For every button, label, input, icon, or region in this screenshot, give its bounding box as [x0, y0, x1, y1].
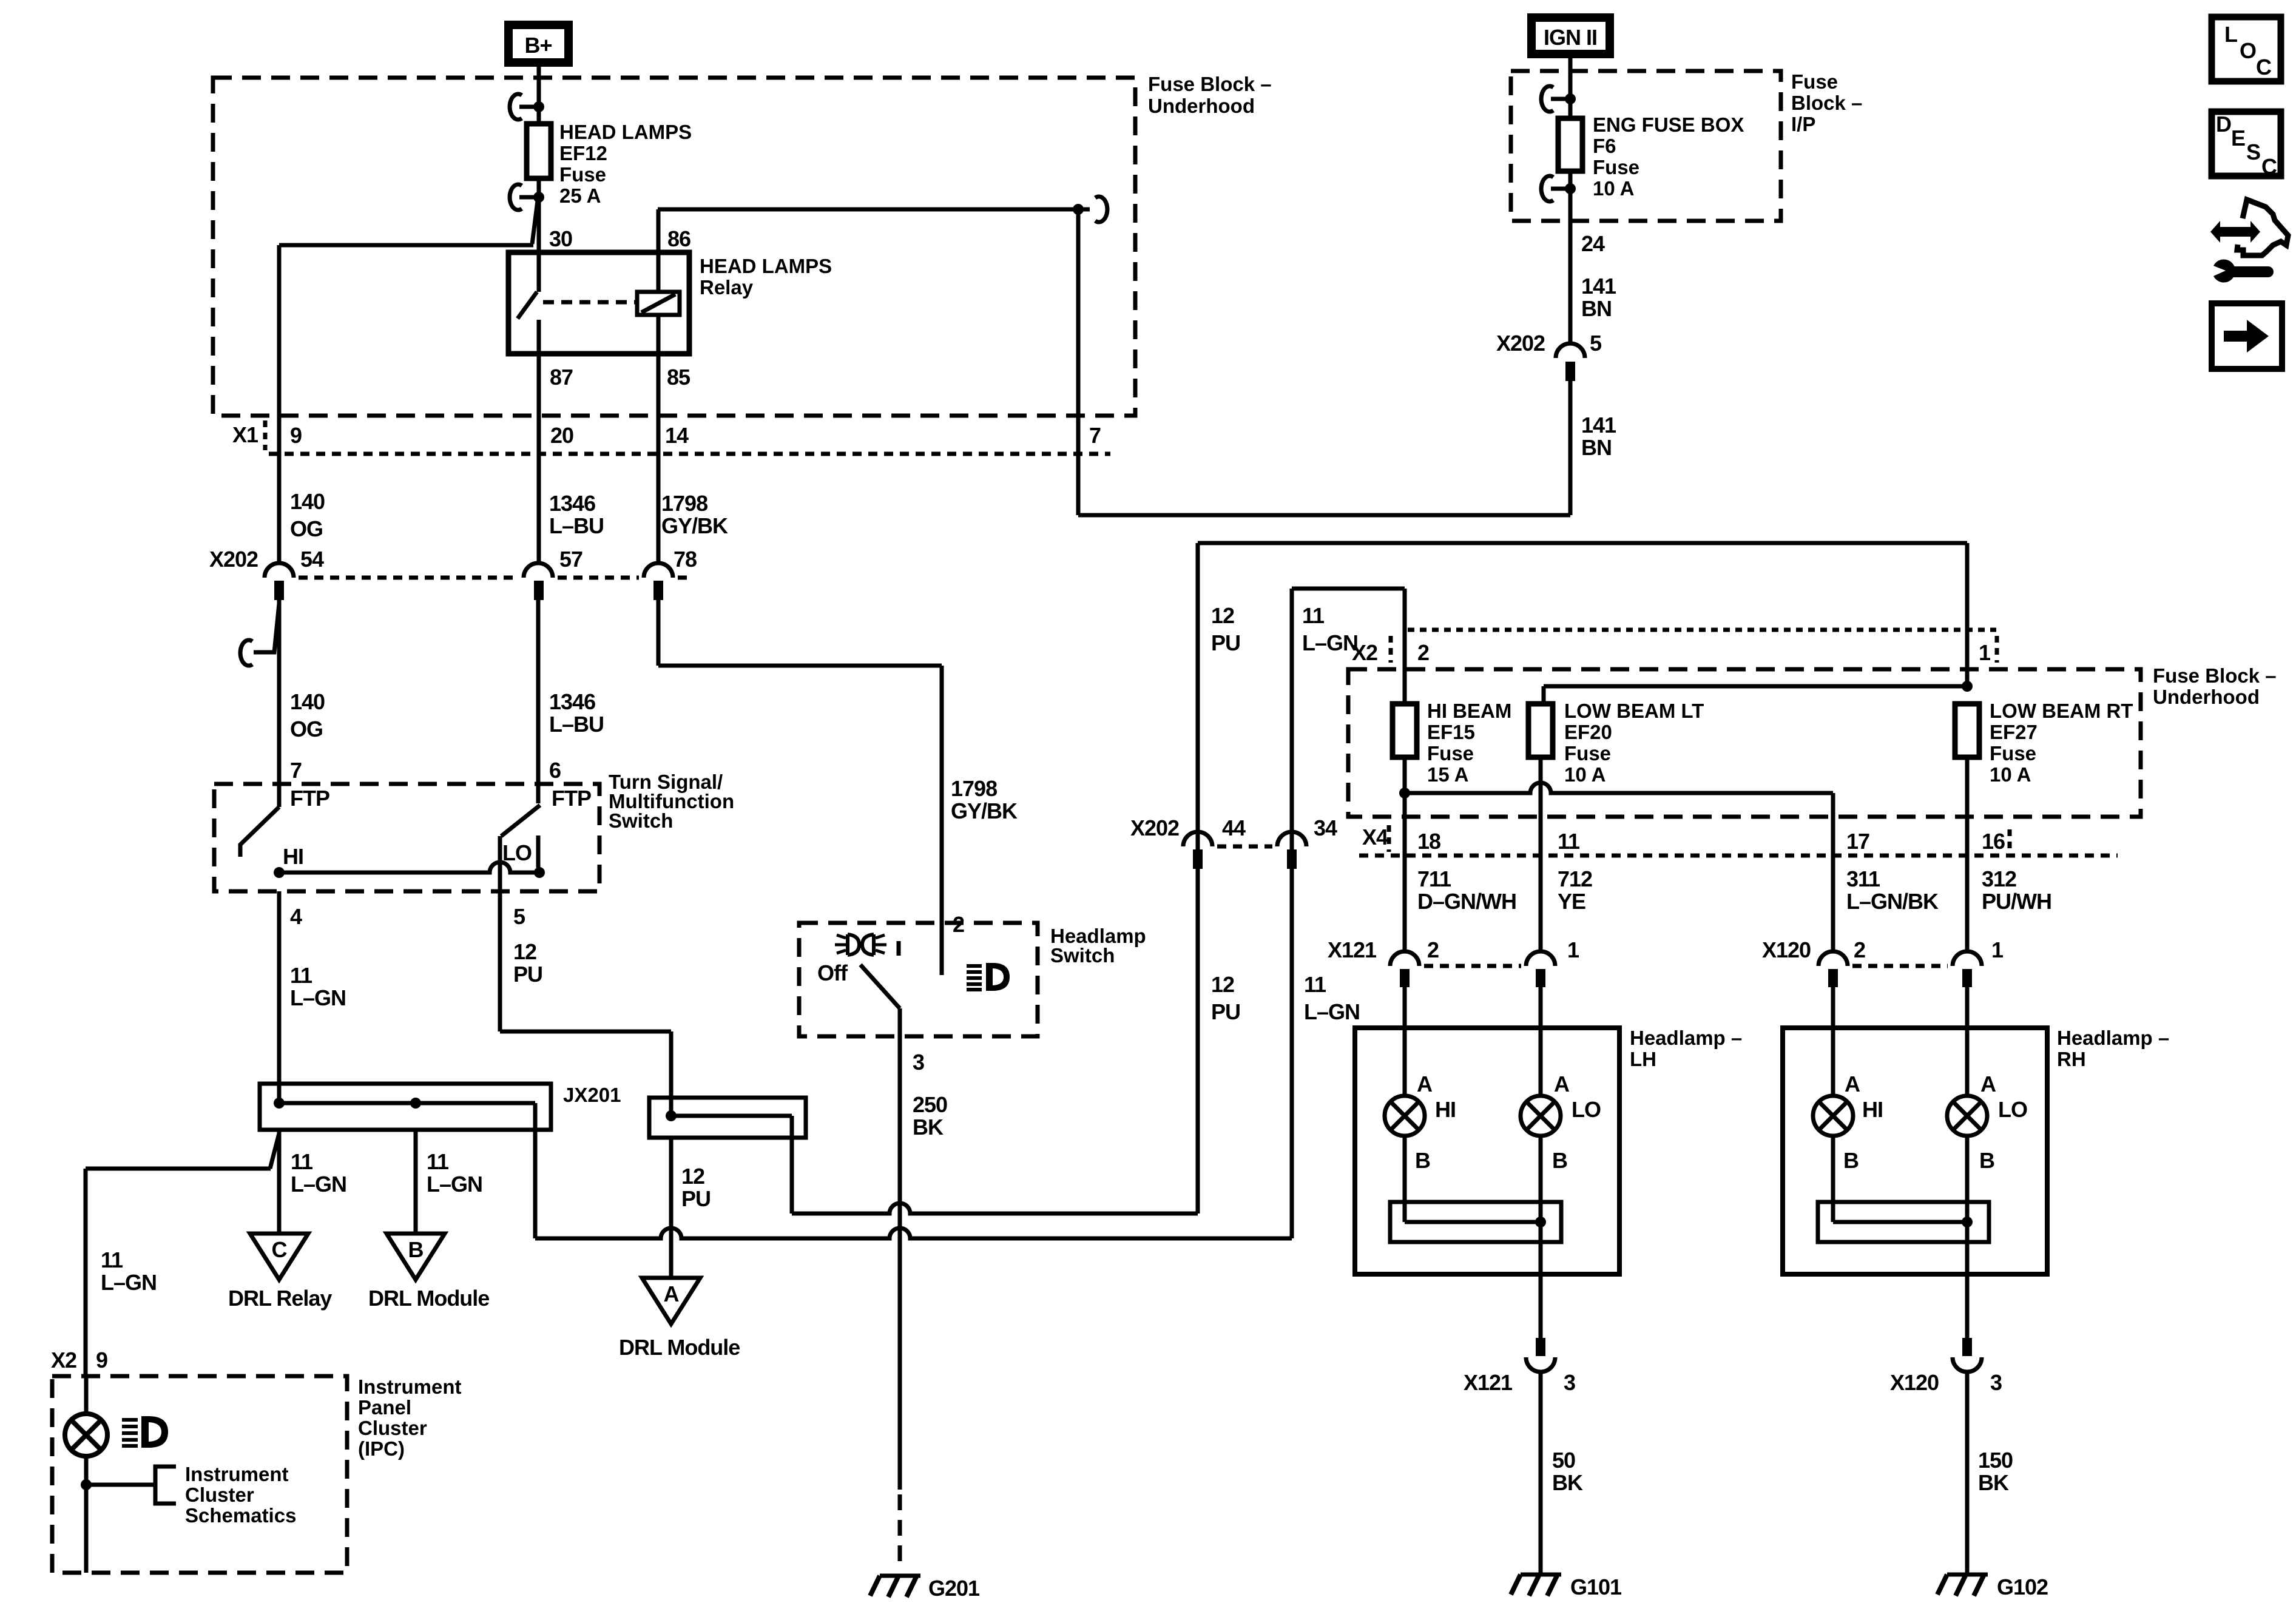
wires into headlamp LH — [1405, 987, 1541, 1096]
splice link to 12 PU main — [792, 869, 1198, 1214]
svg-text:141: 141 — [1581, 274, 1616, 299]
svg-text:EF27: EF27 — [1990, 721, 2038, 743]
svg-text:B: B — [1415, 1148, 1430, 1173]
svg-text:DRL Relay: DRL Relay — [228, 1286, 332, 1311]
svg-text:3: 3 — [913, 1050, 924, 1075]
wire fuse EF12 to relay pin 30 — [537, 178, 541, 252]
svg-text:GY/BK: GY/BK — [951, 798, 1018, 823]
DRL Relay triangle C — [228, 1234, 332, 1311]
svg-text:50: 50 — [1552, 1448, 1575, 1473]
svg-text:L–GN: L–GN — [1304, 999, 1360, 1024]
svg-text:DRL Module: DRL Module — [619, 1335, 740, 1360]
svg-text:L–GN/BK: L–GN/BK — [1846, 889, 1939, 914]
upper wire labels 12 PU / 11 L-GN — [1211, 603, 1358, 655]
svg-text:L–GN: L–GN — [427, 1172, 482, 1197]
svg-text:Off: Off — [817, 960, 848, 985]
svg-text:FTP: FTP — [290, 786, 329, 811]
wire 141 BN lower — [1078, 381, 1570, 515]
svg-text:LO: LO — [1998, 1097, 2027, 1122]
DRL Module triangle B — [368, 1234, 489, 1311]
headlamp switch blade — [860, 965, 900, 1036]
Headlamp RH box — [1783, 1027, 2169, 1274]
svg-text:Headlamp –: Headlamp – — [2057, 1027, 2169, 1049]
svg-text:Instrument: Instrument — [185, 1463, 289, 1485]
svg-text:GY/BK: GY/BK — [661, 513, 728, 538]
svg-text:C: C — [2261, 154, 2277, 179]
wire 150 BK — [1965, 1372, 1970, 1573]
wire 50 BK — [1539, 1372, 1543, 1573]
connector X2 pin 9 labels — [51, 1348, 107, 1372]
fuse holder clip bottom — [510, 184, 544, 210]
wire 12 PU top run — [1198, 543, 1967, 869]
svg-text:Fuse: Fuse — [1593, 156, 1639, 178]
RH splice bar — [1818, 1202, 1989, 1242]
svg-text:OG: OG — [290, 516, 323, 541]
svg-text:Switch: Switch — [609, 809, 673, 832]
Instrument Panel Cluster box — [52, 1376, 462, 1573]
JX201 link wire to 11 L-GN main — [535, 869, 1292, 1238]
LH bulb wires to splice — [1405, 1136, 1541, 1274]
Fuse Block - Underhood right box — [1348, 669, 2141, 817]
svg-text:140: 140 — [290, 489, 325, 514]
svg-text:1346: 1346 — [549, 689, 595, 714]
svg-text:PU: PU — [681, 1186, 711, 1211]
svg-text:312: 312 — [1982, 866, 2016, 891]
wire 11 L-GN from HI to JX201 — [277, 891, 282, 1084]
svg-text:5: 5 — [1590, 331, 1602, 356]
fuse holder clip top — [510, 94, 544, 120]
svg-text:EF12: EF12 — [559, 142, 607, 164]
wire 141 BN — [1568, 171, 1573, 343]
svg-text:BN: BN — [1581, 296, 1612, 321]
svg-text:B: B — [1843, 1148, 1859, 1173]
icon DESC — [2212, 112, 2281, 179]
fuse HI BEAM EF15 — [1393, 700, 1511, 786]
off contact tick — [897, 941, 901, 956]
svg-text:11: 11 — [101, 1247, 123, 1272]
svg-text:HEAD LAMPS: HEAD LAMPS — [700, 255, 832, 277]
svg-text:L–GN: L–GN — [101, 1270, 157, 1295]
switch common wire with hop — [279, 862, 539, 873]
svg-text:Fuse: Fuse — [1427, 742, 1474, 765]
svg-text:EF20: EF20 — [1564, 721, 1612, 743]
wire coil feed down to IGN circuit — [1076, 209, 1081, 515]
svg-text:2: 2 — [953, 912, 964, 937]
svg-text:A: A — [1845, 1072, 1860, 1096]
svg-text:L: L — [2224, 22, 2237, 47]
wire B+ to fuse EF12 — [537, 67, 541, 124]
connector X120 row — [1762, 937, 2004, 987]
svg-text:11: 11 — [291, 1149, 313, 1174]
svg-text:FTP: FTP — [552, 786, 591, 811]
LH HI bulb — [1385, 1072, 1456, 1173]
LH LO bulb — [1521, 1072, 1601, 1173]
svg-text:2: 2 — [1427, 937, 1439, 962]
svg-text:2: 2 — [1417, 640, 1429, 665]
svg-text:I/P: I/P — [1791, 113, 1815, 135]
svg-text:S: S — [2246, 140, 2260, 164]
svg-text:11: 11 — [1304, 972, 1326, 997]
svg-text:PU: PU — [1211, 630, 1240, 655]
IGN II power symbol — [1531, 18, 1610, 54]
connector X1 row — [232, 420, 1110, 454]
connector X121 pin 3 — [1464, 1338, 1575, 1395]
svg-text:PU/WH: PU/WH — [1982, 889, 2051, 914]
svg-text:C: C — [272, 1237, 288, 1262]
svg-text:X120: X120 — [1762, 937, 1811, 962]
fuse holder clip top — [1541, 86, 1576, 112]
ground G201 — [870, 1576, 980, 1601]
svg-text:L–GN: L–GN — [291, 1172, 346, 1197]
svg-text:RH: RH — [2057, 1048, 2086, 1070]
svg-text:X121: X121 — [1464, 1370, 1513, 1395]
wire to X121 pin 3 — [1539, 1274, 1543, 1338]
wire 1798 GY/BK to headlamp switch — [658, 600, 942, 975]
svg-text:3: 3 — [1990, 1370, 2002, 1395]
svg-text:LOW BEAM RT: LOW BEAM RT — [1990, 700, 2133, 722]
svg-text:78: 78 — [674, 547, 697, 572]
svg-text:X202: X202 — [209, 547, 258, 572]
svg-text:Underhood: Underhood — [2153, 686, 2260, 708]
DRL Module triangle A — [619, 1278, 740, 1360]
wire 140 OG lower with inline clip — [240, 600, 279, 807]
svg-text:Switch: Switch — [1050, 944, 1115, 967]
svg-text:9: 9 — [96, 1348, 107, 1372]
svg-text:Instrument: Instrument — [358, 1376, 462, 1398]
ground G102 — [1937, 1575, 2048, 1599]
svg-text:G102: G102 — [1997, 1575, 2048, 1599]
connector X202 row 44/34 — [1130, 815, 1337, 869]
svg-text:150: 150 — [1978, 1448, 2013, 1473]
svg-text:34: 34 — [1314, 815, 1337, 840]
svg-text:X2: X2 — [51, 1348, 76, 1372]
svg-text:1: 1 — [1979, 640, 1991, 665]
JX201 splice pack — [260, 1084, 621, 1130]
svg-text:Fuse: Fuse — [559, 163, 606, 186]
svg-text:Panel: Panel — [358, 1396, 411, 1419]
svg-text:Schematics: Schematics — [185, 1504, 296, 1527]
svg-text:10 A: 10 A — [1564, 763, 1606, 786]
connector X120 pin 3 — [1890, 1338, 2002, 1395]
junction clip at fuse block — [1073, 197, 1107, 222]
wire 140 OG upper — [277, 245, 282, 564]
svg-text:10 A: 10 A — [1990, 763, 2031, 786]
svg-text:A: A — [1417, 1072, 1433, 1096]
svg-text:B: B — [408, 1237, 424, 1262]
svg-text:HEAD LAMPS: HEAD LAMPS — [559, 121, 692, 143]
wire labels 711/712/311/312 — [1417, 866, 2051, 914]
ground G101 — [1511, 1575, 1622, 1599]
wires into headlamp RH — [1833, 987, 1967, 1096]
svg-text:L–BU: L–BU — [549, 513, 604, 538]
svg-text:D: D — [2216, 112, 2231, 137]
svg-text:Cluster: Cluster — [358, 1417, 427, 1439]
svg-text:Headlamp –: Headlamp – — [1630, 1027, 1742, 1049]
svg-text:B: B — [1979, 1148, 1994, 1173]
svg-text:ENG FUSE BOX: ENG FUSE BOX — [1593, 113, 1744, 136]
svg-text:Block –: Block – — [1791, 92, 1862, 114]
wire 12 PU from LO — [500, 891, 671, 1116]
svg-text:87: 87 — [550, 365, 573, 390]
svg-text:L–BU: L–BU — [549, 712, 604, 737]
svg-text:F6: F6 — [1593, 135, 1616, 157]
svg-text:7: 7 — [1089, 423, 1101, 448]
svg-text:LOW BEAM LT: LOW BEAM LT — [1564, 700, 1704, 722]
svg-text:16: 16 — [1982, 829, 2005, 854]
svg-text:141: 141 — [1581, 413, 1616, 437]
icon LOC — [2212, 17, 2281, 81]
svg-text:4: 4 — [290, 904, 302, 929]
svg-text:15 A: 15 A — [1427, 763, 1468, 786]
svg-text:86: 86 — [667, 226, 690, 251]
fuse F6 ENG FUSE BOX 10 A — [1558, 118, 1582, 171]
icon vehicle with arrow and wrench — [2210, 200, 2288, 282]
connector X2 row — [1352, 630, 1997, 665]
icon forward arrow — [2212, 303, 2282, 369]
wire labels 140 OG / 1346 L-BU / 1798 GY/BK — [290, 489, 728, 541]
svg-text:JX201: JX201 — [563, 1084, 621, 1106]
IPC indicator bulb — [65, 1414, 107, 1456]
svg-text:OG: OG — [290, 717, 323, 741]
svg-text:X121: X121 — [1328, 937, 1377, 962]
svg-text:EF15: EF15 — [1427, 721, 1475, 743]
svg-text:11: 11 — [1558, 829, 1580, 854]
svg-text:Fuse: Fuse — [1564, 742, 1611, 765]
svg-text:7: 7 — [290, 758, 302, 783]
headlamp beam icon — [967, 963, 1010, 991]
svg-text:IGN II: IGN II — [1544, 25, 1597, 50]
svg-text:10 A: 10 A — [1593, 177, 1634, 200]
fuse holder clip bottom — [1541, 176, 1576, 201]
connector X121 row — [1328, 937, 1579, 987]
relay HEAD LAMPS — [508, 226, 832, 390]
wire 312 PU/WH — [1965, 757, 1970, 950]
svg-text:G101: G101 — [1570, 1575, 1622, 1599]
svg-text:BK: BK — [913, 1115, 944, 1139]
svg-text:1798: 1798 — [661, 491, 707, 516]
svg-text:54: 54 — [300, 547, 324, 572]
park lamp icon — [835, 934, 886, 955]
svg-text:A: A — [1554, 1072, 1570, 1096]
svg-text:Fuse Block –: Fuse Block – — [1148, 73, 1272, 95]
svg-text:LH: LH — [1630, 1048, 1656, 1070]
svg-text:18: 18 — [1417, 829, 1440, 854]
wire to X120 pin 3 — [1965, 1274, 1970, 1338]
svg-text:C: C — [2256, 55, 2272, 79]
svg-text:A: A — [664, 1281, 680, 1306]
wire relay 87 down — [537, 354, 541, 564]
svg-text:L–GN: L–GN — [1302, 630, 1358, 655]
wire IGN II to fuse F6 — [1568, 54, 1573, 118]
svg-text:X202: X202 — [1496, 331, 1545, 356]
svg-text:9: 9 — [290, 423, 302, 448]
lower wire labels 12 PU / 11 L-GN — [1211, 972, 1360, 1024]
svg-text:1: 1 — [1567, 937, 1579, 962]
svg-text:712: 712 — [1558, 866, 1592, 891]
svg-text:711: 711 — [1417, 866, 1451, 891]
RH HI bulb — [1813, 1072, 1883, 1173]
svg-text:3: 3 — [1564, 1370, 1575, 1395]
svg-text:2: 2 — [1854, 937, 1865, 962]
svg-text:14: 14 — [665, 423, 689, 448]
wire 1346 L-BU lower — [536, 600, 541, 803]
svg-text:11: 11 — [1302, 603, 1325, 628]
svg-text:Relay: Relay — [700, 276, 754, 299]
svg-text:85: 85 — [667, 365, 690, 390]
wire relay 86 to fuse block edge — [658, 209, 1078, 252]
svg-text:5: 5 — [513, 904, 525, 929]
svg-text:12: 12 — [681, 1164, 704, 1189]
svg-text:44: 44 — [1222, 815, 1246, 840]
Headlamp LH box — [1355, 1027, 1742, 1274]
connector X202 row 54/57/78 — [209, 547, 697, 600]
svg-text:G201: G201 — [928, 1576, 980, 1601]
LH splice bar — [1390, 1202, 1561, 1242]
svg-text:11: 11 — [427, 1149, 449, 1174]
svg-text:O: O — [2240, 38, 2256, 63]
svg-text:X1: X1 — [232, 422, 258, 447]
svg-text:24: 24 — [1581, 231, 1605, 256]
svg-text:E: E — [2231, 126, 2245, 150]
svg-text:PU: PU — [513, 962, 542, 987]
svg-text:57: 57 — [559, 547, 582, 572]
Turn Signal / Multifunction Switch box — [214, 784, 599, 891]
svg-text:X120: X120 — [1890, 1370, 1939, 1395]
svg-text:BK: BK — [1552, 1470, 1583, 1495]
svg-text:LO: LO — [502, 840, 532, 865]
svg-text:D–GN/WH: D–GN/WH — [1417, 889, 1516, 914]
svg-text:PU: PU — [1211, 999, 1240, 1024]
IPC wire — [84, 1376, 89, 1573]
svg-text:17: 17 — [1846, 829, 1869, 854]
B+ power symbol — [508, 25, 569, 62]
wire LOW BEAM feed — [1544, 686, 1967, 704]
IPC beam icon — [122, 1416, 168, 1448]
connector X202 pin 5 — [1496, 331, 1602, 381]
svg-text:BK: BK — [1978, 1470, 2009, 1495]
svg-text:X4: X4 — [1362, 825, 1388, 849]
fuse LOW BEAM LT EF20 — [1528, 700, 1704, 786]
svg-text:Fuse: Fuse — [1791, 70, 1838, 93]
svg-text:Underhood: Underhood — [1148, 95, 1255, 117]
wire 711 D-GN/WH — [1403, 757, 1407, 950]
svg-text:L–GN: L–GN — [290, 985, 346, 1010]
fuse LOW BEAM RT EF27 — [1955, 700, 2133, 786]
svg-text:Cluster: Cluster — [185, 1484, 254, 1506]
wire branch to IPC — [86, 1133, 279, 1376]
svg-text:Fuse Block –: Fuse Block – — [2153, 664, 2277, 687]
wire 12 PU to DRL Module A — [669, 1138, 674, 1278]
svg-text:1: 1 — [1991, 937, 2004, 962]
wire 250 BK to G201 — [898, 1036, 902, 1490]
wire relay 85 down — [657, 354, 661, 564]
wire branch to X1 pin 9 — [532, 201, 538, 244]
fuse EF12 HEAD LAMPS 25 A — [527, 124, 551, 178]
svg-text:12: 12 — [1211, 972, 1234, 997]
RH bulb wires to splice — [1833, 1136, 1967, 1274]
Fuse Block - Underhood box — [213, 78, 1135, 416]
wire 11 L-GN to DRL Module B — [414, 1130, 418, 1234]
LO switch blade — [500, 805, 545, 891]
svg-text:311: 311 — [1846, 866, 1880, 891]
svg-text:HI BEAM: HI BEAM — [1427, 700, 1511, 722]
svg-text:250: 250 — [913, 1092, 947, 1117]
svg-text:B+: B+ — [524, 33, 552, 58]
wire branch to 311 — [1405, 783, 1833, 950]
svg-text:BN: BN — [1581, 435, 1612, 460]
svg-text:DRL Module: DRL Module — [368, 1286, 489, 1311]
IPC branch to schematics note — [81, 1463, 296, 1527]
wire 11 L-GN to DRL Relay C — [277, 1130, 282, 1234]
wire 712 YE — [1539, 757, 1543, 950]
svg-text:11: 11 — [290, 963, 312, 988]
svg-text:A: A — [1980, 1072, 1996, 1096]
HI switch blade — [240, 807, 303, 878]
svg-text:HI: HI — [283, 844, 303, 869]
svg-text:Fuse: Fuse — [1990, 742, 2036, 765]
svg-text:X202: X202 — [1130, 815, 1179, 840]
Headlamp Switch box — [799, 923, 1038, 1036]
svg-text:12: 12 — [1211, 603, 1234, 628]
svg-text:20: 20 — [550, 423, 573, 448]
wire 11 L-GN top run — [1292, 589, 1405, 869]
svg-text:30: 30 — [549, 226, 572, 251]
svg-text:(IPC): (IPC) — [358, 1437, 405, 1460]
splice pack 12 PU — [649, 1098, 806, 1214]
svg-text:HI: HI — [1862, 1097, 1883, 1122]
Fuse Block - I/P box — [1511, 71, 1781, 221]
svg-text:B: B — [1552, 1148, 1567, 1173]
svg-text:6: 6 — [549, 758, 561, 783]
svg-text:25 A: 25 A — [559, 184, 601, 207]
RH LO bulb — [1947, 1072, 2027, 1173]
svg-text:HI: HI — [1435, 1097, 1456, 1122]
svg-text:12: 12 — [513, 939, 536, 964]
svg-text:140: 140 — [290, 689, 325, 714]
svg-text:YE: YE — [1558, 889, 1585, 914]
svg-text:1346: 1346 — [549, 491, 595, 516]
svg-text:1798: 1798 — [951, 776, 997, 801]
svg-text:LO: LO — [1572, 1097, 1601, 1122]
svg-text:X2: X2 — [1352, 640, 1377, 665]
connector X4 row — [1359, 825, 2118, 856]
